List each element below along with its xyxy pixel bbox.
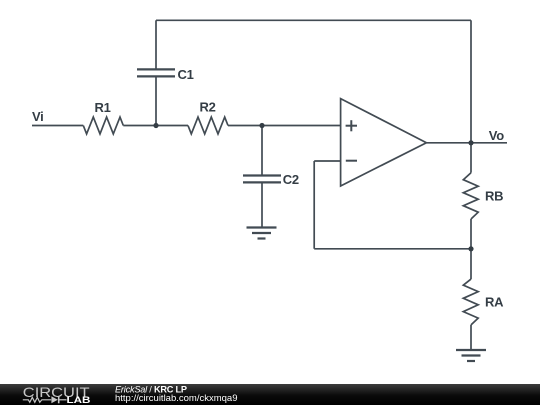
node D junction dot xyxy=(468,246,473,251)
resistor R1 xyxy=(83,117,123,134)
op-amp U1 minus input marker xyxy=(346,160,357,162)
svg-text:C2: C2 xyxy=(283,172,299,187)
wire feedback riser xyxy=(313,161,315,249)
svg-text:RB: RB xyxy=(485,188,503,203)
wire C1 upper lead xyxy=(155,20,157,69)
wire Vo node down to RB xyxy=(470,143,472,173)
wire C1 lower lead to node A xyxy=(155,76,157,125)
wire op-amp output to Vo xyxy=(426,142,507,144)
node Vo junction dot xyxy=(468,140,473,145)
wire C2 lower lead xyxy=(261,182,263,227)
svg-text:Vo: Vo xyxy=(489,128,504,143)
wire R2 to node B to op-amp + input xyxy=(228,125,341,127)
ground (C2) xyxy=(247,228,277,239)
resistor RA xyxy=(463,279,478,325)
svg-text:R1: R1 xyxy=(94,100,110,115)
wire minus input horizontal xyxy=(314,160,340,162)
svg-text:R2: R2 xyxy=(199,100,215,115)
svg-text:C1: C1 xyxy=(178,67,194,82)
wire feedback bottom run to node D xyxy=(314,248,471,250)
ground (RA) xyxy=(456,350,486,361)
wire top feedback from C1 top to right rail xyxy=(156,19,471,21)
wire node D to RA xyxy=(470,249,472,279)
wire right rail top (Vo up to feedback) xyxy=(470,20,472,143)
wire C2 upper lead xyxy=(261,126,263,176)
svg-text:LAB: LAB xyxy=(67,395,91,405)
svg-text:http://circuitlab.com/ckxmqa9: http://circuitlab.com/ckxmqa9 xyxy=(115,393,238,404)
CircuitLab logo mark (resistor + diode) xyxy=(23,397,51,402)
node B junction dot xyxy=(259,123,264,128)
capacitor C2 xyxy=(243,176,281,183)
svg-text:RA: RA xyxy=(485,295,504,310)
footer bar xyxy=(0,384,540,405)
wire RA to ground xyxy=(470,325,472,350)
wire Vi to R1 xyxy=(32,125,83,127)
wire RB to node D xyxy=(470,219,472,249)
resistor RB xyxy=(463,173,478,219)
node A junction dot xyxy=(153,123,158,128)
resistor R2 xyxy=(188,117,228,134)
op-amp U1 xyxy=(341,99,427,186)
op-amp U1 plus input marker xyxy=(346,120,357,131)
svg-text:Vi: Vi xyxy=(32,109,43,124)
capacitor C1 xyxy=(137,69,175,76)
wire R1 to node A to R2 xyxy=(123,125,188,127)
